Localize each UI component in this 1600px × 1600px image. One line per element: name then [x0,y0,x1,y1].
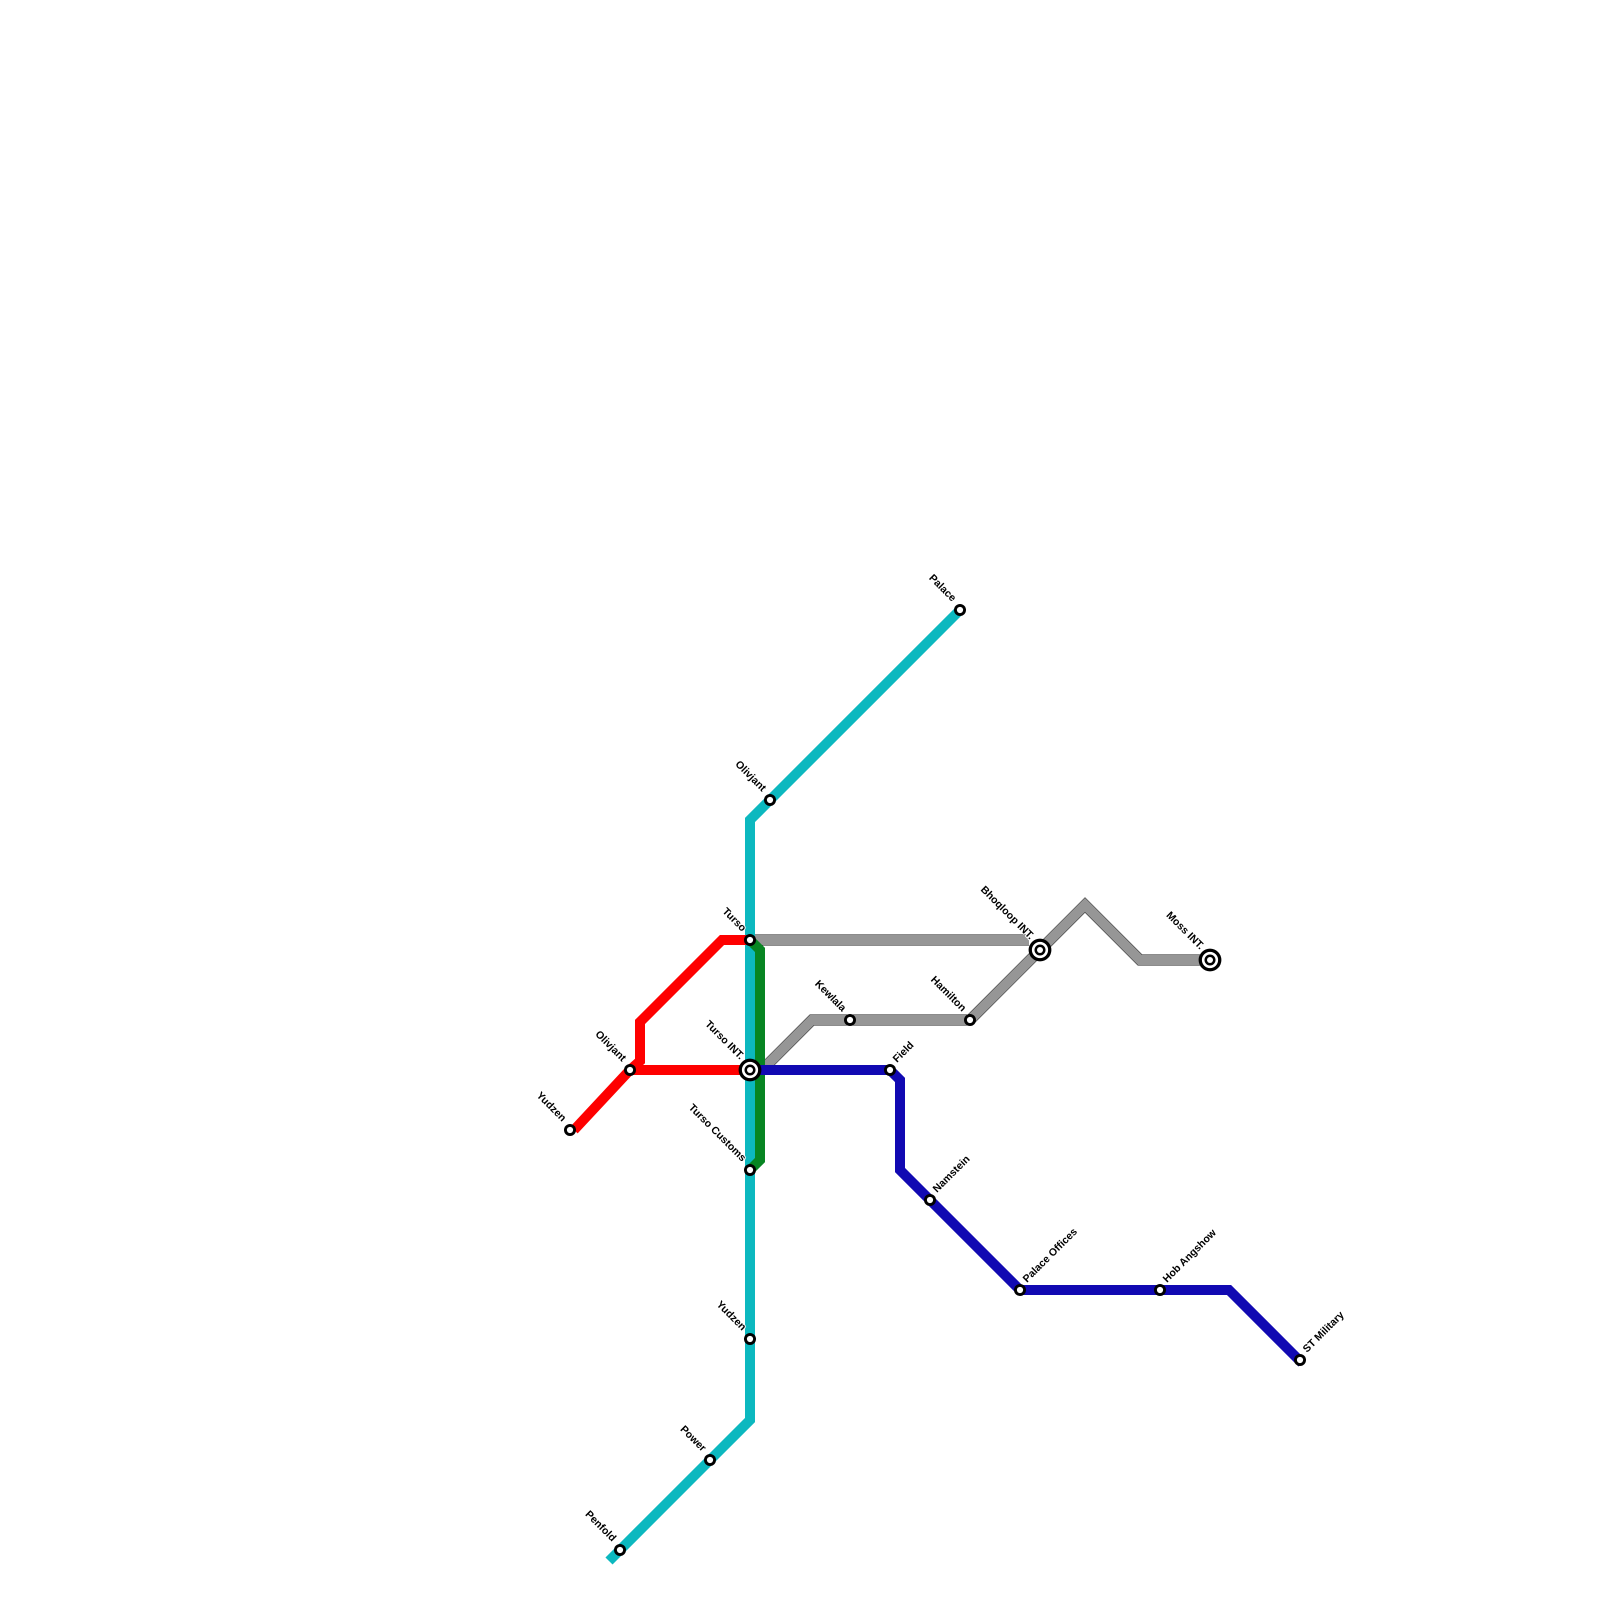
station Yudzen (cyan) [744,1333,756,1345]
gray line Turso INT. to Moss INT. [757,905,1210,1075]
station Namstein [924,1194,936,1206]
red line Turso to Olivjant to Yudzen [574,940,750,1130]
interchange station Moss INT. [1199,949,1222,972]
gray line Turso to Bhoqloop INT. [750,935,1029,945]
station Field [884,1064,896,1076]
station Palace Offices [1014,1284,1026,1296]
interchange station Turso INT. [739,1059,762,1082]
station ST Military [1294,1354,1306,1366]
station Palace [954,604,966,616]
station Hamilton [964,1014,976,1026]
station Turso [744,934,756,946]
station Kewlala [844,1014,856,1026]
green line Turso to Turso Customs [750,940,760,1170]
gray line Turso INT. to Kewlala Hamilton Bhoqloop INT. Moss INT. (outline) [757,905,1210,1075]
station Yudzen (red) [564,1124,576,1136]
station Hob Angshow [1154,1284,1166,1296]
red line Olivjant to Turso INT. [630,1065,750,1075]
station Penfold [614,1544,626,1556]
blue line Turso INT. to ST Military [750,1070,1302,1363]
gray line Turso to Bhoqloop INT. (outline) [750,935,1029,946]
station Power [704,1454,716,1466]
station Turso Customs [744,1164,756,1176]
interchange station Bhoqloop INT. [1029,939,1052,962]
station Olivjant (cyan) [764,794,776,806]
cyan line Palace to Penfold [609,610,960,1561]
station Olivjant (red) [624,1064,636,1076]
